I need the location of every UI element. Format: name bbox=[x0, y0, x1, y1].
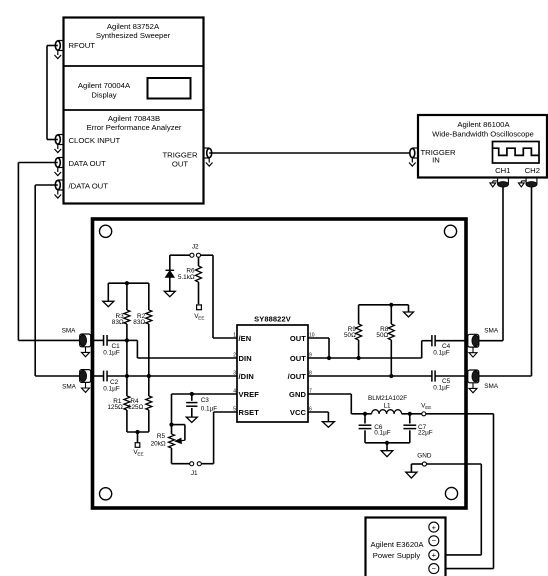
label C7 22uF bbox=[418, 424, 433, 436]
label Agilent 83752A Synthesized Sweeper bbox=[96, 22, 171, 40]
label R4 125ohm bbox=[128, 398, 144, 411]
SMA connector /OUT bbox=[468, 370, 479, 393]
wire C1 to node A bbox=[107, 339, 127, 341]
wire OUT pin 9 bbox=[308, 341, 432, 358]
label RFOUT bbox=[69, 41, 96, 50]
capacitor C5 bbox=[432, 370, 435, 381]
wire SMA to C2 bbox=[91, 375, 104, 377]
capacitor C2 bbox=[104, 371, 108, 382]
label SMA OUT bbox=[484, 328, 499, 335]
svg-text:Display: Display bbox=[91, 91, 116, 100]
svg-text:0.1µF: 0.1µF bbox=[374, 429, 391, 436]
R5 wiper arrow bbox=[172, 425, 185, 444]
svg-text:0.1µF: 0.1µF bbox=[433, 385, 450, 392]
ground termination rail bbox=[404, 305, 414, 317]
terminal VEE bottom-left bbox=[135, 432, 140, 447]
label C6 0.1uF bbox=[374, 424, 391, 436]
label SMA /OUT bbox=[484, 383, 499, 390]
display screen rectangle bbox=[148, 78, 191, 99]
power supply outline Agilent E3620A bbox=[366, 518, 446, 576]
pin 7 GND bbox=[289, 389, 312, 400]
label L1 bbox=[383, 403, 391, 410]
svg-text:/EN: /EN bbox=[239, 334, 252, 343]
wire VEE terminal to power supply bbox=[426, 414, 494, 569]
svg-text:/DIN: /DIN bbox=[239, 372, 254, 381]
svg-text:SY88822V: SY88822V bbox=[254, 315, 291, 324]
svg-text:/OUT: /OUT bbox=[288, 372, 307, 381]
svg-text:0.1µF: 0.1µF bbox=[433, 350, 450, 357]
label BLM21A102F bbox=[368, 395, 407, 402]
label CH1 bbox=[495, 166, 510, 175]
waveform display icon bbox=[493, 142, 540, 164]
svg-text:RSET: RSET bbox=[239, 408, 260, 417]
resistor R4 125ohm bbox=[146, 376, 152, 432]
svg-text:5.1kΩ: 5.1kΩ bbox=[178, 274, 195, 281]
label CLOCK INPUT bbox=[69, 136, 121, 145]
node dot R8 bottom bbox=[389, 374, 393, 378]
potentiometer R5 20kohm bbox=[169, 425, 175, 464]
pin 8 /OUT bbox=[288, 371, 312, 382]
wire DIN step to pin 2 bbox=[127, 340, 237, 358]
jumper J2 bbox=[190, 253, 201, 257]
wire GND terminal to power supply bbox=[427, 464, 482, 555]
svg-text:J2: J2 bbox=[192, 244, 199, 251]
wire C6 C7 bottom rail bbox=[365, 442, 410, 444]
label R1 125ohm bbox=[107, 398, 123, 411]
IC U1 SY88822V outline bbox=[237, 325, 308, 422]
pin 4 VREF bbox=[233, 389, 259, 400]
svg-text:J1: J1 bbox=[191, 470, 198, 477]
mounting hole bottom-left bbox=[100, 488, 112, 500]
svg-text:125Ω: 125Ω bbox=[107, 404, 123, 411]
terminal plus 1 bbox=[429, 522, 439, 532]
svg-text:R5: R5 bbox=[157, 433, 166, 440]
capacitor C4 bbox=[432, 335, 435, 346]
capacitor C6 bbox=[359, 414, 372, 443]
pin 5 RSET bbox=[233, 407, 259, 418]
label J2 bbox=[192, 244, 199, 251]
svg-text:IN: IN bbox=[432, 156, 440, 165]
inductor L1 ferrite bead bbox=[372, 410, 402, 414]
ground below diode bbox=[164, 291, 175, 296]
resistor R8 50ohm bbox=[388, 305, 394, 376]
pin 2 DIN bbox=[233, 353, 252, 364]
svg-text:EE: EE bbox=[137, 452, 143, 457]
pin 10 OUT bbox=[290, 333, 315, 344]
connector TRIGGER OUT bbox=[204, 148, 213, 166]
node dot R8 top bbox=[389, 303, 393, 307]
svg-text:+: + bbox=[432, 523, 437, 532]
label VEE bottom-left bbox=[133, 449, 143, 457]
svg-text:CH2: CH2 bbox=[525, 166, 540, 175]
label R5 20kohm bbox=[151, 433, 166, 447]
label Agilent 70004A Display bbox=[78, 81, 131, 100]
svg-text:DATA OUT: DATA OUT bbox=[69, 159, 107, 168]
label R2 83ohm bbox=[133, 313, 145, 326]
svg-text:OUT: OUT bbox=[290, 334, 306, 343]
label Agilent E3620A Power Supply bbox=[371, 540, 425, 560]
capacitor C1 bbox=[104, 335, 108, 346]
svg-text:SMA: SMA bbox=[484, 328, 499, 335]
svg-text:SMA: SMA bbox=[62, 328, 77, 335]
svg-text:VREF: VREF bbox=[239, 390, 260, 399]
SMA connector OUT bbox=[468, 334, 479, 357]
label R3 83ohm bbox=[112, 313, 124, 326]
cable CH1 to SMA OUT bbox=[478, 187, 503, 341]
terminal minus 1 bbox=[429, 536, 439, 546]
label GND terminal bbox=[417, 453, 432, 460]
ground top-left bbox=[103, 283, 114, 307]
mounting hole top-left bbox=[100, 225, 112, 237]
evaluation board outline bbox=[93, 219, 467, 508]
terminal plus 2 bbox=[429, 550, 439, 560]
svg-text:VCC: VCC bbox=[290, 408, 307, 417]
resistor R1 125ohm bbox=[124, 376, 130, 432]
svg-text:+: + bbox=[432, 551, 437, 560]
connector CLOCK INPUT bbox=[55, 135, 64, 153]
SMA connector /DATA input bbox=[79, 370, 90, 393]
svg-text:20kΩ: 20kΩ bbox=[151, 440, 166, 447]
wire J2 to /EN pin 1 bbox=[201, 255, 237, 338]
wire R1 R4 bottom rail bbox=[127, 431, 149, 433]
node dot C3 bbox=[190, 392, 194, 396]
label SMA DATA input bbox=[62, 328, 77, 335]
wire GND pin 7 to L1 bbox=[308, 394, 372, 414]
resistor R9 50ohm bbox=[356, 305, 362, 358]
wire /OUT pin 8 bbox=[308, 375, 432, 377]
label DATA OUT bbox=[69, 159, 107, 168]
connector CH1 bbox=[490, 179, 509, 188]
svg-text:0.1µF: 0.1µF bbox=[103, 350, 120, 357]
svg-text:EE: EE bbox=[425, 405, 431, 410]
node dot bottom rail bbox=[135, 430, 139, 434]
node dot R3 top bbox=[125, 281, 129, 285]
label R6 5.1kohm bbox=[178, 268, 195, 281]
divider display/analyzer bbox=[64, 109, 204, 111]
node dot filter rail bbox=[385, 441, 389, 445]
ground GND terminal bbox=[406, 464, 422, 478]
label /DATA OUT bbox=[69, 182, 109, 191]
svg-text:83Ω: 83Ω bbox=[133, 319, 145, 326]
terminal minus 2 bbox=[429, 564, 439, 574]
label CH2 bbox=[525, 166, 540, 175]
node dot OUT join bbox=[327, 356, 331, 360]
label C3 0.1uF bbox=[201, 397, 218, 413]
pin 6 VCC bbox=[290, 407, 312, 418]
svg-text:L1: L1 bbox=[383, 403, 391, 410]
svg-text:DIN: DIN bbox=[239, 354, 252, 363]
svg-text:Agilent E3620A: Agilent E3620A bbox=[371, 540, 425, 549]
svg-text:Wide-Bandwidth Oscilloscope: Wide-Bandwidth Oscilloscope bbox=[432, 130, 534, 139]
connector /DATA OUT bbox=[55, 180, 64, 198]
wire VCC pin 6 bbox=[308, 412, 328, 422]
svg-text:C3: C3 bbox=[201, 397, 210, 404]
label C2 0.1uF bbox=[103, 379, 120, 393]
svg-text:OUT: OUT bbox=[290, 354, 306, 363]
jumper J1 bbox=[190, 462, 202, 466]
svg-text:Agilent 83752A: Agilent 83752A bbox=[107, 22, 160, 31]
label R8 50ohm bbox=[376, 326, 388, 339]
label VEE below R6 bbox=[194, 313, 204, 321]
svg-text:50Ω: 50Ω bbox=[344, 332, 356, 339]
ground below C3 bbox=[186, 417, 197, 422]
svg-text:RFOUT: RFOUT bbox=[69, 41, 96, 50]
svg-text:Error Performance Analyzer: Error Performance Analyzer bbox=[87, 123, 182, 132]
cable CH2 to SMA /OUT bbox=[478, 187, 532, 377]
wire R5 to J1 bbox=[172, 463, 190, 465]
terminal VEE right bbox=[422, 412, 426, 416]
wire C5 to SMA bbox=[435, 375, 468, 377]
connector DATA OUT bbox=[55, 158, 64, 176]
pin 3 /DIN bbox=[233, 371, 254, 382]
label Agilent 70843B Error Performance Analyzer bbox=[87, 114, 182, 132]
svg-text:SMA: SMA bbox=[62, 384, 77, 391]
svg-text:Power Supply: Power Supply bbox=[373, 551, 421, 560]
svg-text:GND: GND bbox=[417, 453, 432, 460]
svg-text:125Ω: 125Ω bbox=[128, 404, 144, 411]
wire J1 to RSET pin 5 bbox=[202, 412, 238, 464]
pin 9 OUT bbox=[290, 353, 312, 364]
svg-text:/DATA OUT: /DATA OUT bbox=[69, 182, 109, 191]
node dot R9 bottom bbox=[357, 356, 361, 360]
diode D1 bbox=[166, 270, 175, 291]
svg-text:SMA: SMA bbox=[484, 383, 499, 390]
node dot C6 top bbox=[363, 412, 367, 416]
SMA connector DATA input bbox=[79, 334, 90, 357]
svg-text:−: − bbox=[432, 564, 437, 573]
resistor R2 83ohm bbox=[146, 283, 152, 376]
label SY88822V bbox=[254, 315, 291, 324]
wire C2 to /DIN pin 3 bbox=[107, 375, 237, 377]
cable DATA OUT to SMA input bbox=[18, 163, 80, 341]
wire TRIGGER OUT to TRIGGER IN bbox=[209, 152, 412, 154]
wire termination top rail bbox=[108, 282, 149, 284]
node dot C7 top bbox=[408, 412, 412, 416]
svg-text:Agilent 86100A: Agilent 86100A bbox=[457, 120, 510, 129]
pin 1 /EN bbox=[233, 333, 251, 344]
label C5 0.1uF bbox=[433, 378, 450, 392]
wire C4 to SMA bbox=[435, 340, 468, 342]
connector TRIGGER IN bbox=[409, 148, 418, 166]
node dot C2 R4 bbox=[147, 374, 151, 378]
instrument stack outline (Agilent 83752A / 70004A / 70843B) bbox=[64, 18, 204, 204]
label J1 bbox=[191, 470, 198, 477]
terminal VEE below R6 bbox=[197, 305, 202, 310]
mounting hole top-right bbox=[444, 225, 456, 237]
label Agilent 86100A Wide-Bandwidth Oscilloscope bbox=[432, 120, 534, 139]
svg-text:Agilent 70843B: Agilent 70843B bbox=[108, 114, 160, 123]
capacitor C7 bbox=[403, 414, 416, 443]
node dot C1 R3 bbox=[125, 338, 129, 342]
svg-text:GND: GND bbox=[289, 390, 306, 399]
svg-text:OUT: OUT bbox=[172, 160, 189, 169]
capacitor C3 bbox=[186, 394, 197, 417]
wire VREF pin 4 bbox=[172, 394, 238, 425]
node dot C2 R1 bbox=[125, 374, 129, 378]
svg-text:CH1: CH1 bbox=[495, 166, 510, 175]
svg-text:0.1µF: 0.1µF bbox=[103, 386, 120, 393]
svg-text:83Ω: 83Ω bbox=[112, 319, 124, 326]
label C1 0.1uF bbox=[103, 343, 120, 357]
wire node A to node B bbox=[126, 340, 128, 376]
svg-text:BLM21A102F: BLM21A102F bbox=[368, 395, 407, 402]
label TRIGGER OUT bbox=[162, 151, 197, 169]
svg-text:22µF: 22µF bbox=[418, 429, 433, 436]
wire J2 to diode D1 bbox=[170, 255, 190, 270]
wire OUT pin 10 bbox=[308, 338, 329, 358]
svg-text:CLOCK INPUT: CLOCK INPUT bbox=[69, 136, 121, 145]
resistor R3 83ohm bbox=[124, 283, 130, 340]
cable /DATA OUT to SMA input bbox=[35, 185, 80, 376]
svg-text:EE: EE bbox=[198, 316, 204, 321]
label R9 50ohm bbox=[344, 326, 356, 339]
svg-text:−: − bbox=[432, 536, 437, 545]
wire RFOUT to CLOCK INPUT bbox=[47, 46, 58, 140]
label VEE right bbox=[421, 403, 431, 411]
ground filter rail bbox=[381, 443, 393, 457]
wire SMA to C1 bbox=[91, 339, 104, 341]
node dot R5 top bbox=[169, 423, 173, 427]
wire L1 to VEE terminal bbox=[402, 413, 422, 415]
svg-text:TRIGGER: TRIGGER bbox=[162, 151, 197, 160]
mounting hole bottom-right bbox=[445, 487, 457, 499]
resistor R6 5.1kohm bbox=[196, 257, 202, 304]
label C4 0.1uF bbox=[433, 343, 450, 357]
ground VCC pin bbox=[322, 422, 334, 428]
svg-text:Synthesized Sweeper: Synthesized Sweeper bbox=[96, 31, 171, 40]
wire output termination rail bbox=[359, 304, 409, 306]
connector CH2 bbox=[518, 179, 537, 188]
svg-text:Agilent 70004A: Agilent 70004A bbox=[78, 81, 131, 90]
label SMA /DATA input bbox=[62, 384, 77, 391]
oscilloscope outline Agilent 86100A bbox=[418, 115, 547, 178]
svg-text:50Ω: 50Ω bbox=[376, 332, 388, 339]
label TRIGGER IN bbox=[420, 148, 455, 165]
divider sweeper/display bbox=[64, 65, 204, 67]
connector RFOUT bbox=[55, 41, 64, 59]
terminal GND bbox=[422, 462, 426, 466]
